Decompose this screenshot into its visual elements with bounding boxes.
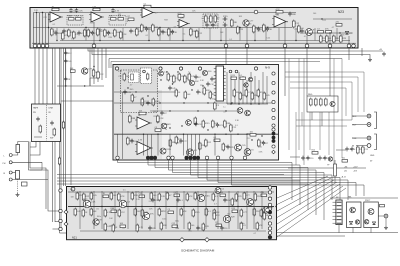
fuse component vertical [334,164,337,176]
resistor R135 [214,102,217,111]
preamp mid h-bus [114,133,278,135]
phono terminal L2 [9,161,12,164]
tuner bracket [374,134,377,150]
resistor R136 [194,117,197,126]
resistor pa row1 0 [76,192,79,201]
left long routes to power amp [57,175,308,185]
resistor R130 [212,120,215,129]
capacitor pa 4 [148,226,151,231]
transistor Q19 [237,108,243,114]
preamp top terminals [115,67,257,70]
resistor R36 [253,25,256,34]
pa right pin column [268,186,271,235]
via pin a [229,70,232,73]
speaker terminal dot [385,215,386,216]
svg-text:OUT: OUT [352,125,357,127]
capacitor C4 [69,8,72,13]
transistor Q13a [248,77,252,81]
resistor R28 [196,30,199,39]
svg-text:IN: IN [352,146,355,148]
ground right of top board [368,58,372,62]
resistor pa row1 5 [118,193,121,202]
resistor R134 [258,139,261,148]
svg-text:GND: GND [370,155,375,157]
wire selector to jack 2 [30,142,40,156]
transistor Q28 [223,215,230,222]
svg-text:+B1: +B1 [344,167,347,169]
resistor R32 [214,15,217,24]
board N23 outline [30,8,358,49]
preamp inner h-rail [114,91,176,93]
svg-text:R18: R18 [211,25,214,27]
tuner terminal 2 [367,144,371,148]
resistor pa row3 2 [120,225,126,228]
pa corner pin filled [268,236,272,240]
selector bottom marks [34,136,42,138]
resistor R sel2 [53,128,56,137]
svg-text:100u: 100u [188,230,192,232]
op-amp IC2a [140,8,155,18]
resistor R113 [251,92,254,101]
resistor R5 [62,32,65,41]
svg-text:4.7: 4.7 [141,98,144,100]
resistor pa row3 10 [256,222,259,231]
svg-text:100u: 100u [162,218,166,220]
capacitor interstage C2 [64,59,67,64]
resistor relay R4 [141,98,144,107]
resistor R9 [68,29,71,38]
relay output box B [364,202,379,228]
resistor R124 [155,129,161,132]
resistor R137 [202,120,205,129]
resistor R38 feedback [276,11,283,13]
capacitor C9 [107,31,110,36]
svg-text:R18: R18 [248,23,251,25]
svg-text:C22: C22 [267,38,270,40]
svg-text:2.2K: 2.2K [79,11,84,13]
capacitor band 1 [301,156,304,161]
resistor R17 [114,29,117,38]
resistor R110 [233,89,236,98]
junction dots preamp upper [127,71,203,96]
resistor R106 [184,91,187,100]
resistor R131 [224,120,227,129]
capacitor C7b [91,31,94,36]
op-amp IC4b [135,142,153,155]
capacitor C sel2 [50,121,53,126]
resistor R43 [320,35,323,44]
svg-text:220: 220 [310,158,314,160]
svg-text:0.1: 0.1 [188,151,191,153]
wire bundle to power amp x63-71 [64,48,72,186]
scatter value labels power amp board [70,189,256,235]
scatter value labels preamp board [118,71,263,154]
wire bundle left of preamp x90-108 [90,48,106,86]
relay K2 pin [143,70,146,73]
svg-text:4.7: 4.7 [304,36,307,38]
transistor out QA2 [355,220,359,224]
op-amp IC1b [89,12,104,22]
svg-text:4.7K: 4.7K [276,9,281,11]
preamp inner v-rail [122,92,124,159]
resistor pa row1 3 [103,195,109,198]
svg-text:L: L [4,156,6,158]
resistor R109 [209,91,212,100]
resistor R sel1 [39,125,42,134]
svg-text:0.1: 0.1 [229,39,232,41]
resistor interstage R1 [70,70,75,73]
top board wire right tail [300,32,352,34]
capacitor pa 3 [223,198,226,203]
diode out DB [372,222,375,225]
svg-text:2.2K: 2.2K [159,118,164,120]
capacitor C10 [129,29,132,34]
resistor ps3 [320,98,323,107]
resistor R122 [127,137,130,146]
svg-text:0.1: 0.1 [53,24,56,26]
resistor relay R1 [123,73,126,82]
resistor ps4 [325,98,328,107]
resistor band 1 [312,152,318,155]
junction dots IC area [230,103,259,104]
top board h-bus 2 [33,27,292,29]
svg-text:330: 330 [84,206,87,208]
svg-text:2.2K: 2.2K [91,201,96,203]
svg-text:+15V: +15V [353,167,358,169]
resistor pa row2 15 [240,209,243,218]
svg-text:4.7: 4.7 [122,228,125,230]
transistor Q11 [189,80,194,85]
resistor R114 [257,89,260,98]
preamp long h-rail y111 [150,110,242,112]
resistor pa row2 13 [213,209,216,218]
resistor R18 [120,31,123,40]
svg-text:4.7: 4.7 [81,16,84,18]
capacitor C18 [223,17,228,20]
svg-text:C22: C22 [322,20,325,22]
phono terminal R1 [9,171,12,174]
svg-text:C12: C12 [364,149,369,151]
resistor R14 [111,18,117,21]
resistor pa row2 17 [260,209,263,218]
wire jack R1 [12,172,15,174]
svg-text:REG: REG [308,94,313,96]
svg-text:1u: 1u [212,93,214,95]
resistor R117 [240,77,246,80]
resistor pa row2 7 [141,209,144,218]
svg-text:-B1: -B1 [344,171,347,173]
junction dots top-left [36,12,49,28]
preamp right edge pin column upper [272,72,275,112]
resistor pa row1 12 [186,193,189,202]
dashed select box 2 [109,16,126,26]
pa internal verticals [80,191,262,229]
resistor pa row2 5 [118,209,121,218]
svg-text:PH: PH [3,163,6,165]
capacitor C2b [54,31,57,36]
capacitor C22 [288,12,291,17]
relay output box A [347,202,362,228]
preamp long h-rail y103 [114,102,272,104]
svg-text:+B -B: +B -B [341,177,347,179]
preamp right diamond pin [272,150,276,154]
capacitor band 3 [318,156,321,161]
wire jack L2 [12,161,42,163]
wire bundle left verticals from top board [35,48,47,104]
diode out DA [349,221,352,224]
resistor pa row1 18 [254,193,257,202]
resistor R15 [118,18,124,21]
capacitor C8 [111,8,114,13]
capacitor C104 [194,75,197,80]
power amp h-bus [68,206,274,208]
resistor R8 [76,18,82,21]
test point TP1 [254,10,258,14]
right band h-wires [288,150,366,168]
IC U10 DIP [216,66,224,101]
svg-text:C12: C12 [247,138,250,140]
svg-text:TUN: TUN [352,138,357,140]
resistor pa row2 1 [82,209,85,218]
resistor pa row3 6 [188,222,191,231]
resistor pa row2 11 [192,209,195,218]
svg-text:330: 330 [110,226,113,228]
capacitor C21 [266,27,269,32]
transistor Q29 [263,207,269,213]
capacitor C124 [216,123,219,128]
svg-text:100u: 100u [97,216,101,218]
svg-text:C22: C22 [43,17,46,19]
transistor Q1 [243,20,249,26]
top board h-bus 3 [60,40,350,42]
capacitor C12 [145,27,148,32]
transistor Q20 [245,110,251,116]
transistor Q24 [142,212,149,219]
interstage cluster wires [57,48,113,101]
transistor Q17 [235,144,242,151]
capacitor C17 [211,23,214,28]
svg-text:R18: R18 [341,34,344,36]
svg-text:4.7: 4.7 [142,103,145,105]
scatter value labels top board [34,10,344,41]
transistor Q12 [202,70,207,75]
resistor R105 [175,89,178,98]
resistor on left pair 2 [62,121,64,130]
resistor pa row2 8 [158,208,161,217]
svg-text:100u: 100u [83,199,87,201]
resistor pa row1 17 [243,192,246,201]
output connector bars [337,202,342,223]
resistor pa v2 [231,198,234,207]
resistor R11 [84,29,87,38]
wire bundle mid-left verticals x52-61 [53,48,67,233]
capacitor pa 1 [151,198,154,203]
capacitor pa 2 [176,198,179,203]
junction dots h-rails [159,102,232,111]
svg-text:C45: C45 [68,61,73,63]
resistor R47 [336,24,342,27]
top board internal stub verticals [57,28,337,41]
board N23 inner bottom rail [32,42,356,44]
capacitor C13 [161,30,164,35]
resistor R125 [169,139,172,148]
svg-text:4.7: 4.7 [155,12,158,14]
rec out bracket [374,112,377,129]
svg-text:4.7: 4.7 [130,84,133,86]
svg-text:4.7: 4.7 [174,27,177,29]
resistor pa v1 [213,212,216,221]
capacitor C6 [77,31,80,36]
resistor R11c [97,28,100,37]
svg-text:2.2K: 2.2K [161,196,166,198]
svg-text:4.7: 4.7 [253,233,256,235]
right routing verticals [292,163,364,221]
resistor ps1 [310,98,313,107]
capacitor band 4 [323,156,326,161]
capacitor interstage C1 [64,51,67,56]
capacitor pa 6 [220,226,223,231]
transistor Q2 [306,29,313,36]
svg-text:LINE: LINE [49,108,54,110]
transistor Q16 [186,149,193,156]
top board wire right tail 2 [313,18,352,20]
svg-text:R18: R18 [164,19,167,21]
resistor R103 [178,73,181,82]
preamp right terminal column [272,116,275,148]
pa left diamond pin 2 [64,222,68,226]
svg-text:1u: 1u [188,72,190,74]
pa left diamond pin 1 [64,210,68,214]
power stub +B [361,48,363,56]
resistor R115 [263,92,266,101]
resistor R33 [231,19,234,28]
resistor pa row1 15 [220,194,226,197]
rec out dot 2 [368,124,369,125]
resistor pa row2 3 [104,209,107,218]
transistor Q10 [159,71,164,76]
svg-text:0.1: 0.1 [146,35,149,37]
svg-text:4.7: 4.7 [201,194,204,196]
resistor relay R2 [147,73,149,81]
resistor R12 feedback [93,8,100,10]
svg-text:TAPE: TAPE [33,107,39,110]
resistor R101 [167,73,170,82]
resistor R107 [203,87,206,96]
relay K1 dashed [129,72,140,83]
capacitor C121 [160,111,163,116]
resistor interstage R2 [92,69,95,78]
capacitor C125 [262,141,265,146]
svg-text:100: 100 [276,15,279,17]
capacitor C20 [257,27,260,32]
transistor Q27 [247,199,254,206]
resistor pa row3 1 [112,224,115,233]
transistor out QB2 [365,220,369,224]
svg-text:4.7: 4.7 [127,21,130,23]
svg-text:0.1: 0.1 [183,34,186,36]
transistor Q21 [83,200,91,208]
transistor Q26 [215,188,221,194]
resistor R127 [199,142,202,151]
phono terminal R2 [9,178,12,181]
junction dots top bus [56,27,296,41]
right routing horizontals upper [285,72,364,126]
transistor interstage Q1 [82,68,88,74]
svg-text:330: 330 [227,213,230,215]
resistor pa row3 8 [216,224,222,227]
capacitor band 5 [345,147,348,152]
resistor R45 [333,35,336,44]
svg-text:4.7K: 4.7K [115,11,120,13]
svg-text:REC: REC [352,116,357,118]
capacitor C102 [196,90,199,95]
wire selector vertical pair [29,142,59,212]
wire selector vertical pair 2 [30,142,46,210]
jack ground block [22,182,28,186]
capacitor C105 [210,77,213,82]
svg-text:R18: R18 [108,37,111,39]
svg-text:-15V: -15V [353,171,358,173]
resistor pa row2 6 [134,208,137,217]
transistor Q21b [186,120,192,126]
svg-text:4.7K: 4.7K [120,196,125,198]
transistor band TP [328,157,332,161]
resistor pa row3 3 [136,224,139,233]
resistor band 1 [357,146,360,155]
resistor R22 [141,24,144,33]
ground jack [16,193,20,197]
capacitor C127 [226,145,229,150]
right routing vertical joins [296,72,364,165]
svg-text:2.2K: 2.2K [205,226,210,228]
resistor R123 [157,115,160,124]
resistor R37 [263,24,266,33]
resistor R16 [104,29,107,38]
input selector center dashed divider [46,105,48,141]
power supply small box [307,96,338,112]
pa bottom rail [67,239,277,241]
capacitor C122 [179,139,182,144]
wire jack L1 [12,153,18,156]
svg-text:0.1: 0.1 [235,125,238,127]
rec out terminal 2 [367,123,371,127]
svg-text:R12: R12 [68,53,73,55]
resistor R31 [210,15,213,24]
wire jack R2 [12,179,48,181]
svg-text:1u: 1u [177,138,179,140]
transistor Q25 [197,194,204,201]
wire box B to terminal [378,215,384,217]
board N21 outline [67,187,277,240]
resistor R21 feedback [144,5,151,7]
resistor pa row1 1 [83,193,86,202]
capacitor C126 [194,122,197,127]
resistor on left pair [58,157,60,166]
rec out terminal 1 [367,114,371,118]
connector pins top board [33,44,355,48]
top board h-bus 1 [33,12,296,14]
capacitor C101 [168,86,171,91]
board N9 left gray patch [114,65,158,112]
svg-text:R: R [4,173,6,175]
resistor R121 [129,115,132,124]
junction dots pa [101,206,276,207]
resistor pa row3 5 [172,225,178,228]
dashed eq box [203,14,218,28]
resistor R102 [173,75,176,84]
resistor pa v3 [263,212,266,221]
resistor R126 [175,136,178,145]
